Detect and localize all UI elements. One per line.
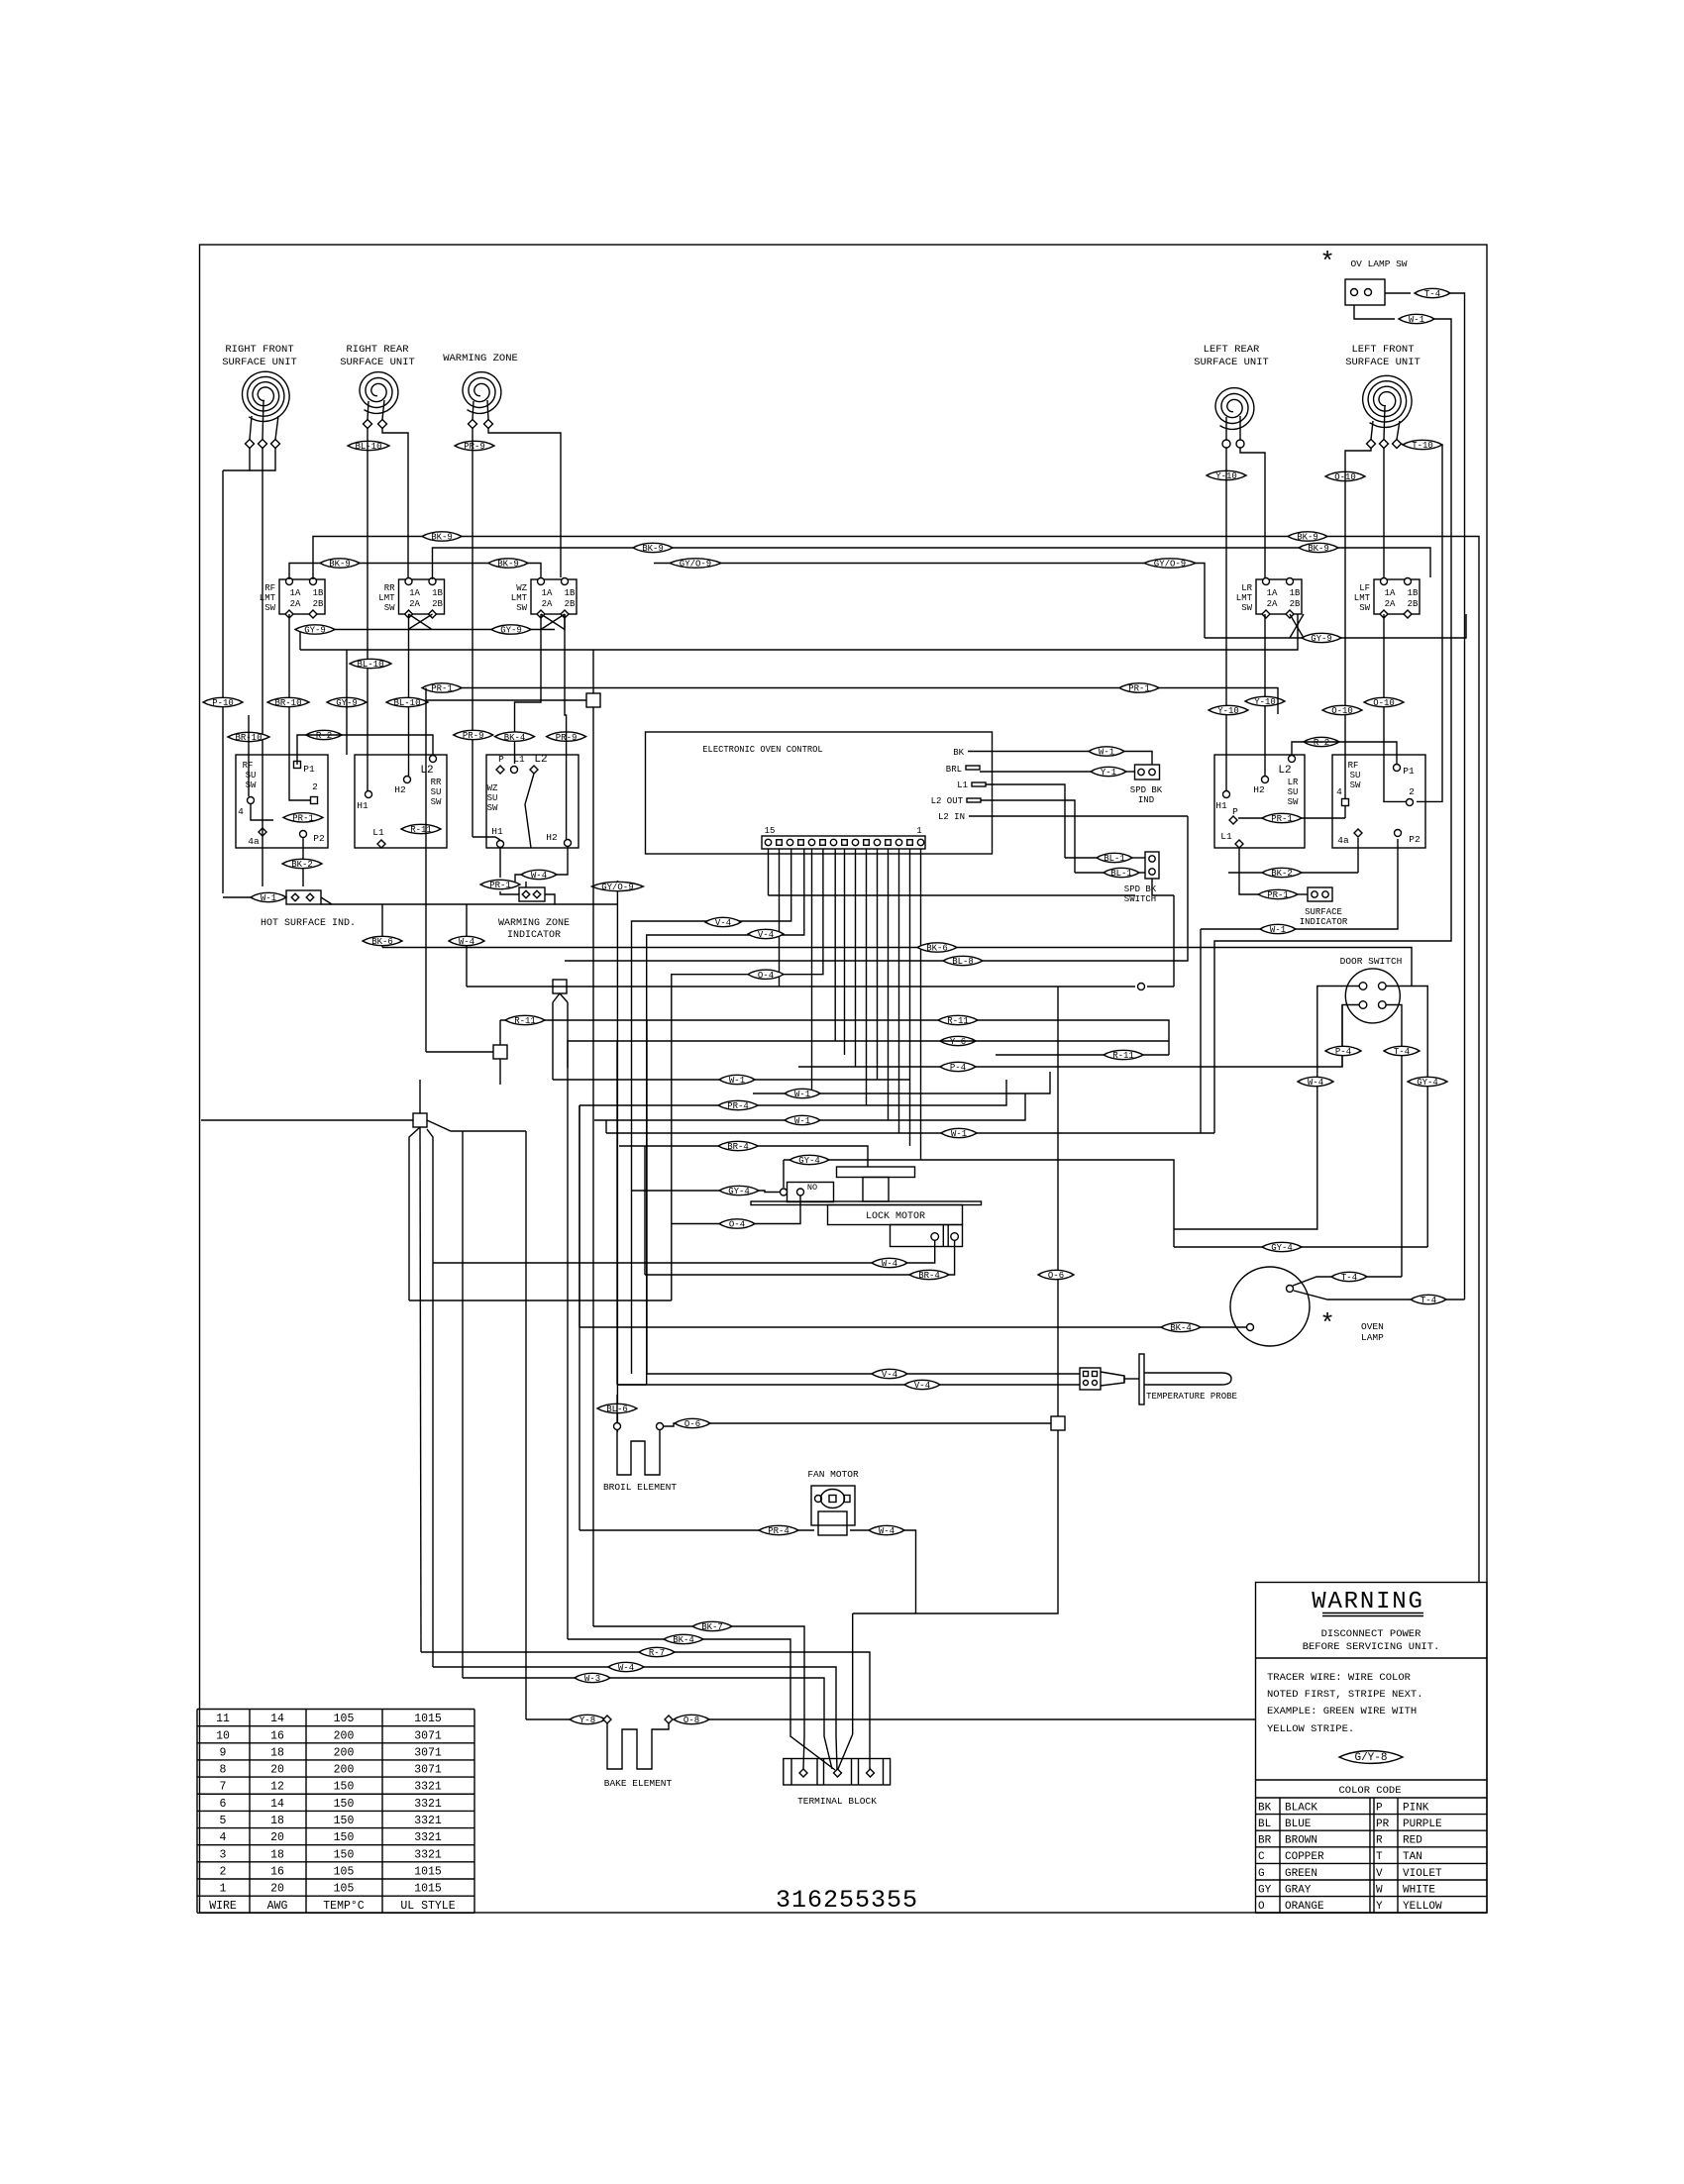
wire label PR-9 top2: [547, 732, 586, 743]
oven lamp terminal b: [1247, 1324, 1254, 1331]
wire LR t2 over down: [1240, 448, 1265, 577]
svg-text:T-4: T-4: [1394, 1047, 1410, 1057]
wire RF P2 down: [302, 838, 304, 886]
svg-text:L2 IN: L2 IN: [938, 812, 965, 822]
svg-text:18: 18: [270, 1746, 284, 1759]
svg-text:L2: L2: [1278, 765, 1291, 777]
heating coil RF surface unit: [243, 371, 290, 421]
svg-text:P: P: [498, 754, 504, 765]
svg-text:BEFORE SERVICING UNIT.: BEFORE SERVICING UNIT.: [1303, 1641, 1440, 1653]
wire label GY/O-9 mid: [591, 882, 643, 892]
svg-text:R-7: R-7: [649, 1648, 665, 1658]
svg-text:V-4: V-4: [715, 918, 731, 928]
surface switch RF SU SW box: [236, 755, 328, 848]
wire label T-4 door: [1384, 1046, 1420, 1057]
svg-text:OV LAMP SW: OV LAMP SW: [1350, 259, 1407, 269]
wire BL-8 run: [565, 960, 617, 962]
svg-text:2A: 2A: [542, 599, 553, 609]
svg-text:LMT: LMT: [378, 593, 395, 603]
wire label BK-6 left: [363, 936, 402, 947]
svg-text:W: W: [1376, 1884, 1383, 1896]
temperature probe body: [1144, 1373, 1231, 1385]
wire GY-4 run upper: [784, 1160, 1174, 1247]
wire BK-4 bottom run: [568, 1639, 835, 1770]
wire door TR: [1386, 987, 1427, 1248]
wire V-4 probe b: [617, 1384, 1080, 1386]
wire y1398 left: [617, 1384, 646, 1386]
wire T-4 b right: [1446, 1299, 1465, 1300]
heating coil RR surface unit: [360, 372, 398, 414]
wire T-4 down right side: [1450, 293, 1465, 1300]
wire label Y-10 pair a: [1209, 705, 1248, 716]
wire gy-9 vertical: [346, 650, 348, 755]
svg-text:3: 3: [220, 1848, 227, 1861]
svg-text:200: 200: [334, 1746, 355, 1759]
svg-text:INDICATOR: INDICATOR: [1300, 917, 1348, 927]
svg-text:Y-8: Y-8: [579, 1716, 595, 1725]
wire label W-1 m3: [785, 1115, 820, 1126]
svg-text:3321: 3321: [414, 1781, 442, 1794]
wire GY-4 run lower: [632, 1191, 780, 1193]
svg-text:O-10: O-10: [1331, 706, 1353, 716]
svg-text:BK-9: BK-9: [497, 560, 519, 570]
svg-text:SU: SU: [1350, 771, 1361, 780]
RF SU SW terminal P2: [300, 831, 307, 838]
svg-text:G: G: [1258, 1868, 1265, 1880]
wire label T-10: [1403, 440, 1442, 451]
svg-text:H2: H2: [546, 832, 558, 843]
wire junction A down: [592, 707, 594, 1626]
svg-text:BK-9: BK-9: [329, 560, 351, 570]
svg-text:Y-1: Y-1: [1101, 768, 1116, 778]
svg-text:BL-10: BL-10: [357, 660, 383, 670]
wire junction E down: [853, 1430, 1058, 1613]
broil terminal right: [657, 1423, 664, 1430]
wire long run y656: [300, 614, 1298, 650]
lock motor switch box: [788, 1183, 834, 1202]
svg-text:R-11: R-11: [410, 825, 432, 835]
LR SU SW terminal H2: [1262, 777, 1269, 783]
LF coil terminal 2: [1380, 440, 1389, 449]
svg-text:YELLOW: YELLOW: [1403, 1901, 1442, 1913]
svg-text:W-3: W-3: [584, 1674, 600, 1684]
wire R-2 line: [297, 735, 433, 765]
svg-text:BR-4: BR-4: [727, 1142, 749, 1152]
door switch pin BR: [1379, 1001, 1387, 1009]
svg-text:SW: SW: [487, 803, 498, 813]
wire label PR-1 at surface ind: [1258, 889, 1298, 900]
wire RF t1 elbow: [223, 448, 250, 470]
wire pr9 top2 vertical: [565, 614, 567, 839]
svg-text:PR-9: PR-9: [464, 442, 485, 452]
svg-text:1: 1: [916, 826, 921, 836]
svg-text:SURFACE UNIT: SURFACE UNIT: [222, 357, 297, 368]
door switch pin TR: [1379, 983, 1387, 990]
temperature probe connector: [1080, 1368, 1101, 1390]
limit switch RF LMT SW: [260, 578, 325, 619]
svg-text:2: 2: [312, 781, 318, 792]
fan motor lower box: [818, 1511, 847, 1535]
svg-text:GY: GY: [1258, 1884, 1272, 1896]
svg-text:8: 8: [220, 1764, 227, 1777]
svg-text:2: 2: [220, 1865, 227, 1878]
wire junction B line: [467, 986, 1135, 988]
wire label BK-4 bottom: [664, 1634, 703, 1645]
svg-text:316255355: 316255355: [776, 1886, 918, 1915]
svg-text:W-4: W-4: [882, 1259, 897, 1269]
wire label BK-9 c1: [320, 559, 360, 570]
wire hot-warming bus y913: [321, 903, 617, 905]
warning box frame: [1256, 1583, 1488, 1914]
wire label R-7: [639, 1647, 675, 1658]
wire label BK-9 a1: [422, 532, 462, 543]
svg-text:T: T: [1376, 1851, 1383, 1863]
wire junction B legs: [553, 993, 560, 1002]
warning underline: [1322, 1612, 1423, 1614]
svg-text:LR: LR: [1288, 778, 1299, 787]
RR coil lead left: [368, 401, 368, 420]
svg-text:BK-4: BK-4: [1170, 1323, 1192, 1333]
wire Y-1 to SPD BK IND box: [1126, 771, 1134, 773]
RF coil terminal 1: [246, 440, 255, 449]
svg-text:PR-1: PR-1: [1267, 890, 1289, 900]
svg-text:SURFACE: SURFACE: [1305, 907, 1342, 917]
svg-text:18: 18: [270, 1815, 284, 1827]
svg-text:O-6: O-6: [684, 1419, 700, 1429]
surface switch LR SU SW box: [1214, 755, 1305, 848]
svg-text:BK-6: BK-6: [371, 937, 393, 947]
wire label W-1 m1: [719, 1075, 755, 1086]
terminal block dividers: [790, 1759, 792, 1786]
svg-text:BK-4: BK-4: [673, 1635, 694, 1645]
svg-text:EXAMPLE: GREEN WIRE WITH: EXAMPLE: GREEN WIRE WITH: [1267, 1706, 1417, 1717]
wire label GY-9 wz: [327, 697, 367, 708]
svg-text:GY/O-9: GY/O-9: [680, 560, 711, 570]
wire label O-4 top: [748, 970, 784, 981]
wire WZ lmt bottom left down: [515, 614, 542, 764]
LF coil lead right: [1397, 421, 1400, 440]
wire label BL-8: [943, 956, 983, 967]
limit switch WZ LMT SW: [511, 578, 577, 619]
svg-text:P-4: P-4: [1335, 1047, 1351, 1057]
wire GY/O-9 run: [654, 564, 1205, 639]
svg-text:BROWN: BROWN: [1285, 1835, 1317, 1847]
wire label BK-4 wz: [495, 732, 535, 743]
wire label W-3: [575, 1673, 610, 1684]
svg-text:LAMP: LAMP: [1361, 1332, 1384, 1343]
svg-text:BLACK: BLACK: [1285, 1802, 1317, 1814]
svg-text:INDICATOR: INDICATOR: [507, 930, 561, 941]
spd bk switch box: [1145, 852, 1159, 879]
svg-text:V-4: V-4: [758, 930, 774, 940]
wire Y-6 run: [568, 1041, 823, 1068]
svg-text:PR-4: PR-4: [768, 1526, 789, 1536]
WZ coil lead right: [487, 400, 488, 420]
RF coil terminal 3: [271, 440, 280, 449]
svg-text:SW: SW: [384, 603, 395, 613]
svg-text:GY-4: GY-4: [798, 1156, 820, 1166]
terminal block lug 2: [834, 1769, 842, 1777]
wire label PR-4 mid: [718, 1100, 758, 1111]
svg-text:RR: RR: [384, 583, 395, 593]
wire label O-10 LF top: [1325, 471, 1365, 482]
wire WZ t2 over down: [488, 428, 561, 577]
spd bk ind terminal 1: [1138, 769, 1144, 775]
wire BR-4 lock run: [645, 1240, 955, 1275]
wire label PR-4 fan: [759, 1525, 798, 1536]
wire W-4 lock run: [433, 1240, 935, 1263]
wire BK-4 lamp: [579, 1326, 1246, 1328]
ov lamp sw terminal 1: [1351, 289, 1358, 296]
wire junction C left: [426, 1051, 493, 1053]
door switch body: [1345, 969, 1400, 1023]
svg-text:150: 150: [334, 1815, 355, 1827]
svg-text:W-4: W-4: [618, 1663, 634, 1673]
svg-text:GY-9: GY-9: [304, 626, 326, 636]
wire label P-10: [203, 697, 243, 708]
wire O-6 run: [664, 1423, 1051, 1426]
svg-text:BK: BK: [953, 748, 964, 758]
wire W-4 bottom run: [433, 1667, 837, 1769]
svg-text:R-11: R-11: [1112, 1051, 1134, 1061]
svg-text:T-4: T-4: [1341, 1273, 1357, 1283]
wire BL-1 to SPD BK switch: [1065, 857, 1097, 859]
wire label GY-4 u: [789, 1155, 829, 1166]
svg-text:WZ: WZ: [516, 583, 527, 593]
svg-text:RED: RED: [1403, 1835, 1422, 1847]
spd bk switch terminal 2: [1149, 869, 1155, 875]
wire label P-4 mid: [940, 1062, 976, 1073]
wire GY-4 elbow to switch: [783, 1160, 785, 1188]
wire V-4 run a: [632, 849, 791, 1374]
wire label BK-9 b1: [633, 543, 673, 554]
wire label R-11 a: [505, 1015, 545, 1026]
junction box E: [1051, 1416, 1065, 1430]
LR coil lead left: [1225, 417, 1227, 440]
svg-text:NO: NO: [807, 1183, 817, 1193]
svg-text:LEFT REAR: LEFT REAR: [1204, 344, 1260, 356]
surface indicator box: [1308, 887, 1332, 901]
wire label P-4 door: [1325, 1046, 1361, 1057]
wire fan W-4: [850, 1529, 869, 1531]
svg-text:W-4: W-4: [879, 1526, 895, 1536]
oven lamp body: [1230, 1267, 1310, 1346]
svg-text:*: *: [1319, 248, 1335, 277]
svg-text:UL STYLE: UL STYLE: [400, 1900, 455, 1913]
svg-text:LMT: LMT: [511, 593, 528, 603]
wire P to 4 run: [1238, 817, 1345, 819]
wire junction C down: [499, 1059, 501, 1085]
svg-text:PR-4: PR-4: [727, 1101, 749, 1111]
svg-text:BL-1: BL-1: [1110, 869, 1132, 879]
svg-text:BR: BR: [1258, 1835, 1272, 1847]
svg-text:R-2: R-2: [1314, 738, 1329, 748]
junction box D: [413, 1113, 427, 1127]
svg-text:WHITE: WHITE: [1403, 1884, 1435, 1896]
wire label R-2 left: [306, 730, 342, 741]
wire run y1313: [409, 1300, 672, 1301]
RF coil lead right: [275, 416, 278, 440]
wire label BL-10 mid: [350, 659, 391, 670]
svg-text:PR-9: PR-9: [463, 731, 484, 741]
wire W-1 run c: [594, 1093, 1025, 1120]
wire W-1 to SPD BK IND: [1124, 752, 1152, 766]
svg-text:V: V: [1376, 1868, 1383, 1880]
svg-text:2A: 2A: [409, 599, 420, 609]
wire left bus to W-1 hot surface: [223, 896, 251, 898]
wire label PR-9 WZ top: [455, 441, 494, 452]
wire BK-2 line: [1228, 872, 1262, 874]
svg-text:2A: 2A: [1385, 599, 1396, 609]
LF SU SW terminal P1: [1394, 765, 1401, 772]
svg-text:150: 150: [334, 1798, 355, 1811]
svg-text:L1: L1: [957, 780, 968, 790]
bake terminal right: [665, 1716, 673, 1723]
wire label O-4 low: [719, 1219, 755, 1230]
svg-text:OVEN: OVEN: [1361, 1321, 1384, 1332]
svg-text:O-4: O-4: [758, 971, 774, 981]
svg-text:4a: 4a: [248, 836, 260, 847]
svg-text:LR: LR: [1241, 583, 1252, 593]
svg-text:SURFACE UNIT: SURFACE UNIT: [1194, 357, 1269, 368]
wire BK-4 left elbow: [579, 1105, 580, 1327]
wire label T-4 lamp b: [1411, 1295, 1446, 1305]
bake terminal left: [603, 1716, 611, 1723]
wire label W-1 top: [1399, 314, 1434, 325]
svg-text:BK-4: BK-4: [504, 733, 526, 743]
wire label BL-1 lower: [1104, 868, 1139, 879]
wire R-2 right line: [1292, 742, 1397, 764]
wire label Y-1: [1091, 767, 1126, 778]
svg-text:R-2: R-2: [316, 731, 332, 741]
wire warming pr-1: [499, 848, 501, 878]
svg-text:20: 20: [270, 1883, 284, 1896]
svg-text:WARMING ZONE: WARMING ZONE: [443, 353, 518, 364]
wire label PR-1 warming: [480, 880, 520, 890]
svg-text:BL-8: BL-8: [952, 957, 974, 967]
surface indicator terminal 1: [1312, 891, 1317, 897]
wire label V-4 probe b: [904, 1380, 940, 1391]
wire label GY-4 l: [719, 1186, 759, 1196]
svg-text:TRACER WIRE: WIRE COLOR: TRACER WIRE: WIRE COLOR: [1267, 1672, 1412, 1684]
svg-text:WIRE: WIRE: [209, 1900, 237, 1913]
wire T-10 to LF SU SW: [1417, 445, 1442, 801]
svg-text:LMT: LMT: [1354, 593, 1371, 603]
wire EOC BK to W-1: [992, 751, 1089, 753]
LF coil lead left: [1371, 421, 1373, 440]
svg-text:Y: Y: [1376, 1901, 1383, 1913]
svg-text:ORANGE: ORANGE: [1285, 1901, 1324, 1913]
wire RR lmt bottom left down: [408, 614, 410, 776]
LR coil terminal 1: [1222, 440, 1230, 448]
lock motor switch terminal b: [797, 1189, 804, 1196]
LF coil terminal 1: [1367, 440, 1376, 449]
WZ coil terminal 1: [469, 420, 477, 429]
svg-text:SW: SW: [264, 603, 275, 613]
wire LF t1 elbow down: [1345, 448, 1371, 798]
svg-text:V-4: V-4: [882, 1370, 897, 1380]
svg-text:BK-9: BK-9: [1308, 544, 1329, 554]
svg-text:1A: 1A: [1385, 588, 1396, 598]
LR SU SW terminal L2: [1289, 756, 1296, 763]
junction box B: [553, 980, 567, 993]
wire label GY-9 R: [1302, 633, 1341, 644]
EOC terminal strip pins: [765, 839, 771, 845]
wire RR t1 down: [367, 428, 368, 790]
svg-text:GY/O-9: GY/O-9: [1154, 560, 1186, 570]
wire GY-9 cross wz: [541, 614, 565, 630]
wire label V-4 probe a: [872, 1369, 907, 1380]
wire W-3 run: [463, 1678, 832, 1769]
LR coil terminal 2: [1236, 440, 1244, 448]
svg-text:Y-10: Y-10: [1217, 706, 1239, 716]
svg-text:BK-9: BK-9: [431, 533, 453, 543]
svg-text:WZ: WZ: [487, 783, 498, 793]
wire P-4 run: [798, 1005, 1342, 1068]
wire label GY-4 low: [1262, 1242, 1302, 1253]
svg-text:Y-6: Y-6: [950, 1037, 966, 1047]
svg-text:SU: SU: [487, 793, 498, 803]
wire label W-4 bottom: [608, 1662, 644, 1673]
wire warming box to bus: [545, 894, 555, 904]
svg-text:P1: P1: [1403, 766, 1415, 777]
svg-text:1B: 1B: [1408, 588, 1419, 598]
wire junction A left: [426, 699, 586, 701]
wire GY/O-9 vertical: [616, 881, 618, 1432]
svg-text:7: 7: [220, 1781, 227, 1794]
wire EOC BRL to Y-1: [980, 771, 1091, 773]
wire label PR-1 in LR SU SW: [1262, 813, 1302, 824]
wire junction C up: [499, 1020, 501, 1045]
svg-text:C: C: [1258, 1851, 1265, 1863]
wire label V-4 b: [748, 929, 784, 940]
svg-text:W-1: W-1: [261, 893, 276, 903]
LR SU SW terminal H1: [1223, 791, 1230, 798]
svg-text:FAN MOTOR: FAN MOTOR: [807, 1469, 859, 1480]
wire door BL: [1342, 1005, 1359, 1068]
electronic oven control box: [646, 732, 993, 854]
svg-text:P-10: P-10: [212, 698, 234, 708]
svg-text:SW: SW: [246, 780, 257, 790]
svg-text:200: 200: [334, 1764, 355, 1777]
lock motor lower box: [891, 1225, 963, 1247]
wire label R-2 right: [1304, 737, 1339, 748]
svg-text:BK-2: BK-2: [291, 860, 313, 870]
svg-text:P-4: P-4: [950, 1063, 966, 1073]
lock motor top plate: [837, 1167, 915, 1178]
wire PR-4 run: [579, 1080, 1006, 1105]
wire W-4 fan route: [904, 1530, 916, 1613]
svg-text:*: *: [1319, 1309, 1335, 1339]
wire Y-8 O-8 run: [526, 1718, 602, 1720]
svg-text:LEFT FRONT: LEFT FRONT: [1351, 344, 1414, 356]
svg-text:RR: RR: [431, 778, 442, 787]
wire GY-9 cross rr: [409, 614, 433, 630]
svg-text:SU: SU: [431, 787, 442, 797]
wire BR-4 run: [619, 1146, 868, 1167]
svg-text:BL-10: BL-10: [393, 698, 420, 708]
wire label W-4 warming: [521, 870, 557, 881]
hot surface ind box: [286, 890, 321, 904]
svg-text:PR-1: PR-1: [431, 684, 453, 694]
spd bk ind box: [1135, 765, 1160, 780]
wire label BK-9 a2: [1288, 532, 1327, 543]
svg-text:18: 18: [270, 1848, 284, 1861]
wire junction D legs: [409, 1127, 420, 1300]
surface switch RR SU SW box: [355, 755, 447, 848]
svg-text:SW: SW: [1288, 797, 1299, 807]
svg-text:W-1: W-1: [794, 1090, 810, 1099]
